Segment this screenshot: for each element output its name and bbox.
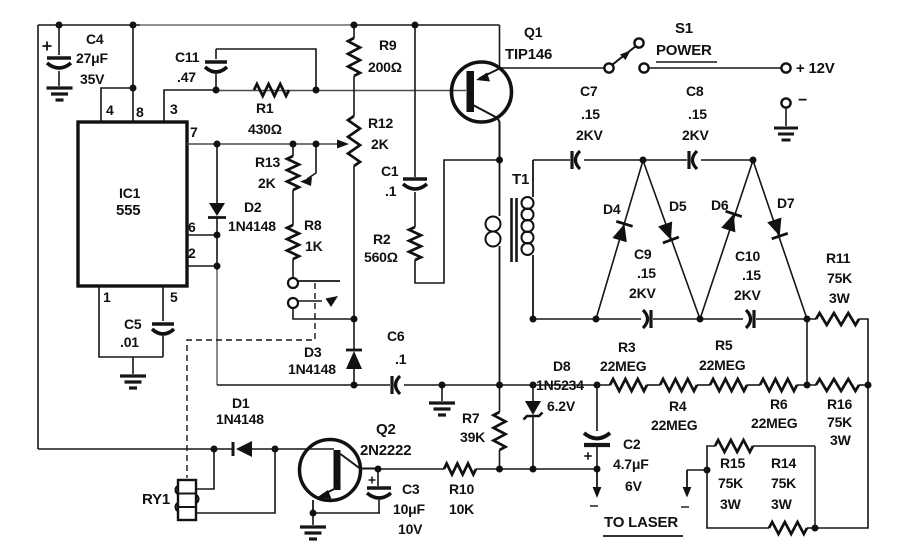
svg-text:.15: .15 bbox=[742, 267, 761, 283]
svg-text:IC1: IC1 bbox=[119, 185, 141, 201]
polarity + of C4 bbox=[43, 45, 52, 47]
resistor R10 bbox=[444, 464, 476, 475]
polarity + of C2 bbox=[584, 455, 592, 457]
svg-text:2KV: 2KV bbox=[682, 127, 709, 143]
capacitor C11 bbox=[215, 49, 217, 59]
wire bottom-left to D1 bbox=[38, 448, 233, 450]
contact fixed blade bbox=[299, 280, 341, 282]
wire +12V top rail bbox=[38, 24, 140, 26]
svg-text:75K: 75K bbox=[827, 270, 852, 286]
svg-text:TO LASER: TO LASER bbox=[604, 514, 678, 531]
capacitor C3 bbox=[377, 469, 379, 486]
wire D1 to Q2 base bbox=[252, 448, 334, 450]
svg-text:5: 5 bbox=[170, 289, 178, 305]
svg-text:R9: R9 bbox=[379, 37, 397, 53]
resistor R8 bbox=[287, 225, 299, 259]
wire R3-R4 bbox=[647, 384, 660, 386]
wire R6 to node bbox=[797, 384, 816, 386]
svg-text:2N2222: 2N2222 bbox=[360, 442, 411, 459]
wire pin 1 to ground bbox=[99, 286, 163, 357]
svg-text:R8: R8 bbox=[304, 217, 322, 233]
wiper of R13 bbox=[307, 144, 316, 179]
svg-text:.15: .15 bbox=[688, 106, 707, 122]
svg-text:3: 3 bbox=[170, 101, 178, 117]
svg-text:R7: R7 bbox=[462, 410, 480, 426]
svg-text:Q1: Q1 bbox=[524, 24, 543, 40]
terminal minus bbox=[781, 98, 790, 107]
svg-text:39K: 39K bbox=[460, 429, 485, 445]
svg-text:22MEG: 22MEG bbox=[751, 415, 798, 431]
svg-text:R11: R11 bbox=[826, 250, 851, 266]
wire pin 8 riser bbox=[132, 25, 134, 122]
diode D4 bbox=[596, 161, 643, 320]
resistor R3 bbox=[610, 379, 647, 391]
svg-text:22MEG: 22MEG bbox=[600, 358, 647, 374]
wire R4-R5 bbox=[697, 384, 710, 386]
wire contact to D3 node bbox=[293, 308, 354, 319]
svg-text:R13: R13 bbox=[255, 154, 280, 170]
svg-text:C3: C3 bbox=[402, 481, 420, 497]
diode D2 bbox=[216, 144, 218, 203]
svg-text:−: − bbox=[798, 92, 807, 109]
wire C11-R1 loop bbox=[216, 49, 316, 90]
diode D5 bbox=[643, 161, 700, 320]
svg-text:2K: 2K bbox=[258, 175, 276, 191]
svg-text:R14: R14 bbox=[771, 455, 796, 471]
wire pin 2 stub bbox=[187, 265, 217, 267]
wire pin 4 loop bbox=[101, 88, 133, 122]
resistor R13 rheostat bbox=[292, 144, 294, 156]
svg-text:3W: 3W bbox=[829, 290, 851, 306]
wire Q1 emitter to switch S1 bbox=[500, 67, 605, 69]
transformer T1 core bbox=[510, 198, 513, 262]
relay RY1 coil bbox=[178, 480, 196, 520]
svg-text:4: 4 bbox=[106, 102, 114, 118]
svg-text:POWER: POWER bbox=[656, 42, 712, 59]
wire emitter to C3 bottom bbox=[313, 512, 380, 514]
transistor Q1 TIP146 bbox=[452, 62, 512, 122]
svg-text:R10: R10 bbox=[449, 481, 474, 497]
wire mid row center bbox=[404, 384, 610, 386]
capacitor C1 bbox=[414, 25, 416, 177]
svg-text:2: 2 bbox=[188, 245, 196, 261]
svg-text:.1: .1 bbox=[395, 351, 407, 367]
svg-text:D7: D7 bbox=[777, 195, 795, 211]
svg-text:6.2V: 6.2V bbox=[547, 398, 576, 414]
capacitor C5 bbox=[162, 286, 164, 321]
wire pin 6 stub bbox=[187, 234, 217, 236]
capacitor C4 bbox=[58, 25, 60, 55]
svg-text:560Ω: 560Ω bbox=[364, 249, 398, 265]
diode D1 bbox=[232, 442, 235, 456]
svg-text:1N5234: 1N5234 bbox=[536, 377, 584, 393]
potentiometer R12 bbox=[348, 116, 360, 166]
mechanical link dashed bbox=[187, 283, 315, 478]
svg-text:D6: D6 bbox=[711, 197, 729, 213]
svg-text:10K: 10K bbox=[449, 501, 474, 517]
svg-text:1: 1 bbox=[103, 289, 111, 305]
svg-text:C10: C10 bbox=[735, 248, 760, 264]
resistor R2 bbox=[409, 227, 421, 260]
svg-text:+ 12V: + 12V bbox=[796, 60, 835, 77]
svg-text:R6: R6 bbox=[770, 396, 788, 412]
capacitor C9 bbox=[649, 310, 652, 328]
capacitor C6 bbox=[390, 376, 393, 394]
diode D6 bbox=[700, 161, 753, 320]
wire right rail bbox=[815, 319, 868, 528]
ground below minus terminal bbox=[785, 108, 787, 126]
wire C8 to node bbox=[701, 159, 753, 161]
wire bottom output row bbox=[378, 468, 444, 470]
svg-text:3W: 3W bbox=[830, 432, 852, 448]
svg-text:T1: T1 bbox=[512, 171, 529, 188]
svg-text:2KV: 2KV bbox=[629, 285, 656, 301]
capacitor C8 bbox=[645, 159, 687, 161]
switch S1 bbox=[604, 63, 613, 72]
svg-text:.01: .01 bbox=[120, 334, 139, 350]
wire bottom rail center bbox=[653, 318, 743, 320]
diode D7 bbox=[753, 161, 807, 320]
polarity + of C3 bbox=[369, 479, 376, 481]
svg-text:D5: D5 bbox=[669, 198, 687, 214]
svg-text:7: 7 bbox=[190, 124, 198, 140]
svg-text:.47: .47 bbox=[177, 69, 196, 85]
wire relay bottom terminal bbox=[196, 449, 275, 513]
svg-text:2K: 2K bbox=[371, 136, 389, 152]
svg-text:D2: D2 bbox=[244, 199, 262, 215]
svg-text:1K: 1K bbox=[305, 238, 323, 254]
ground below C4 bbox=[47, 86, 73, 89]
svg-text:D4: D4 bbox=[603, 201, 621, 217]
svg-text:R2: R2 bbox=[373, 231, 391, 247]
wire pin 3 riser bbox=[164, 90, 216, 122]
svg-text:22MEG: 22MEG bbox=[651, 417, 698, 433]
svg-text:R16: R16 bbox=[827, 396, 852, 412]
svg-text:C5: C5 bbox=[124, 316, 142, 332]
svg-text:3W: 3W bbox=[720, 496, 742, 512]
svg-text:Q2: Q2 bbox=[376, 421, 396, 438]
wire R11-R16 connector bbox=[806, 319, 808, 385]
transformer T1 primary bbox=[499, 160, 501, 216]
capacitor C10 bbox=[752, 310, 755, 328]
wire R15 node arrow bbox=[687, 469, 707, 471]
svg-text:27μF: 27μF bbox=[76, 50, 109, 66]
wire C7 to node bbox=[584, 159, 643, 161]
resistor R5 bbox=[710, 379, 747, 391]
junction dots bbox=[56, 22, 63, 29]
transformer T1 secondary bbox=[532, 160, 534, 197]
wire bottom rail right bbox=[756, 318, 816, 320]
svg-text:2KV: 2KV bbox=[576, 127, 603, 143]
resistor R1 bbox=[254, 84, 289, 96]
wire R16 to right rail bbox=[859, 384, 868, 386]
wire R5-R6 bbox=[747, 384, 760, 386]
wire relay top terminal bbox=[196, 449, 214, 489]
resistor R16 bbox=[816, 379, 859, 391]
svg-text:6V: 6V bbox=[625, 478, 643, 494]
wire bottom rail left bbox=[533, 318, 641, 320]
capacitor C2 bbox=[596, 385, 598, 431]
svg-text:1N4148: 1N4148 bbox=[228, 218, 276, 234]
resistor R11 bbox=[816, 313, 859, 325]
wire C2 output arrow bbox=[596, 469, 598, 490]
contact moving blade bbox=[299, 300, 323, 302]
terminal +12V bbox=[781, 63, 790, 72]
resistor R7 bbox=[499, 385, 501, 412]
svg-text:C7: C7 bbox=[580, 83, 598, 99]
wiper arrow into R12 bbox=[337, 140, 349, 149]
svg-text:C11: C11 bbox=[175, 49, 200, 65]
wire R1 row / Q1 base bbox=[216, 90, 466, 92]
svg-text:C2: C2 bbox=[623, 436, 641, 452]
resistor R4 bbox=[660, 379, 697, 391]
svg-text:R5: R5 bbox=[715, 337, 733, 353]
svg-text:6: 6 bbox=[188, 219, 196, 235]
ground below Q2 bbox=[312, 513, 314, 525]
relay contact circles bbox=[288, 278, 298, 288]
svg-text:1N4148: 1N4148 bbox=[288, 361, 336, 377]
svg-text:22MEG: 22MEG bbox=[699, 357, 746, 373]
svg-text:C4: C4 bbox=[86, 31, 104, 47]
svg-text:200Ω: 200Ω bbox=[368, 59, 402, 75]
svg-text:R15: R15 bbox=[720, 455, 745, 471]
ground below C5 bbox=[132, 357, 134, 374]
svg-text:430Ω: 430Ω bbox=[248, 121, 282, 137]
wire mid row left bbox=[217, 384, 390, 386]
resistor R15 bbox=[707, 446, 715, 470]
wire R2 to Q1 collector node bbox=[415, 160, 500, 283]
resistor R9 bbox=[353, 25, 355, 38]
svg-text:8: 8 bbox=[136, 104, 144, 120]
ground below C6 wire bbox=[441, 385, 443, 401]
wire S1 to +12V terminal bbox=[649, 67, 782, 69]
resistor R6 bbox=[760, 379, 797, 391]
resistor R14 bbox=[707, 470, 769, 528]
svg-text:C1: C1 bbox=[381, 163, 399, 179]
svg-text:C6: C6 bbox=[387, 328, 405, 344]
svg-text:S1: S1 bbox=[675, 20, 693, 37]
wire left rail bbox=[37, 25, 39, 449]
svg-text:4.7μF: 4.7μF bbox=[613, 456, 649, 472]
svg-text:D3: D3 bbox=[304, 344, 322, 360]
svg-text:.15: .15 bbox=[637, 265, 656, 281]
wire secondary to C7 bbox=[533, 159, 570, 161]
svg-text:75K: 75K bbox=[827, 414, 852, 430]
svg-text:555: 555 bbox=[116, 202, 140, 219]
svg-text:D8: D8 bbox=[553, 358, 571, 374]
svg-text:10V: 10V bbox=[398, 521, 423, 537]
svg-text:1N4148: 1N4148 bbox=[216, 411, 264, 427]
svg-text:R4: R4 bbox=[669, 398, 687, 414]
wire top rail corner to Q1 emitter bbox=[499, 25, 501, 68]
diode D3 bbox=[353, 319, 355, 350]
svg-text:75K: 75K bbox=[718, 475, 743, 491]
svg-text:RY1: RY1 bbox=[142, 491, 170, 508]
transistor Q2 2N2222 bbox=[300, 440, 361, 501]
svg-text:R1: R1 bbox=[256, 100, 274, 116]
svg-text:75K: 75K bbox=[771, 475, 796, 491]
svg-text:.15: .15 bbox=[581, 106, 600, 122]
svg-text:2KV: 2KV bbox=[734, 287, 761, 303]
svg-text:R3: R3 bbox=[618, 339, 636, 355]
svg-text:TIP146: TIP146 bbox=[505, 46, 552, 63]
svg-text:D1: D1 bbox=[232, 395, 250, 411]
wire pin 7 row bbox=[187, 143, 341, 145]
zener diode D8 bbox=[532, 385, 534, 401]
svg-text:3W: 3W bbox=[771, 496, 793, 512]
svg-text:C8: C8 bbox=[686, 83, 704, 99]
svg-text:R12: R12 bbox=[368, 115, 393, 131]
capacitor C7 bbox=[570, 151, 573, 169]
svg-text:.1: .1 bbox=[385, 183, 397, 199]
op-amp IC1 555 timer box bbox=[78, 122, 187, 286]
svg-text:35V: 35V bbox=[80, 71, 105, 87]
svg-text:C9: C9 bbox=[634, 246, 652, 262]
svg-text:10μF: 10μF bbox=[393, 501, 426, 517]
